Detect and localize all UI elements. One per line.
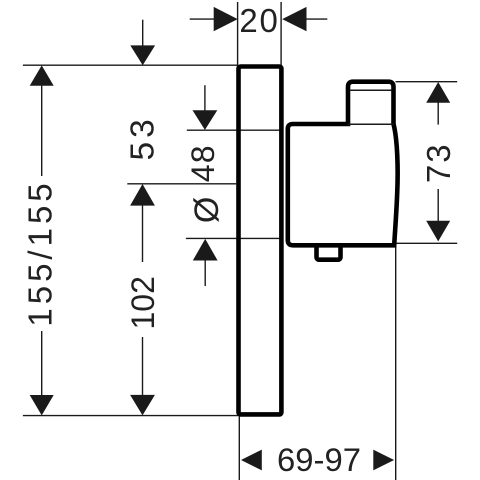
plate bottom extension line xyxy=(23,415,238,417)
dim 20 left tail xyxy=(190,18,215,20)
arrow dimØ48 bottom (up) xyxy=(193,239,218,261)
svg-text:69-97: 69-97 xyxy=(277,441,361,478)
73 top extension line xyxy=(396,81,458,83)
svg-text:48: 48 xyxy=(185,144,221,182)
dim 102 upper segment xyxy=(142,205,144,263)
line C (bottom of Ø48) xyxy=(186,237,281,239)
dim 20 right tail xyxy=(305,18,327,20)
svg-text:20: 20 xyxy=(239,2,279,39)
dim Ø48 bottom tail xyxy=(204,260,206,287)
arrow dim102 top (up) xyxy=(130,184,155,206)
69-97 left extension line xyxy=(238,417,240,480)
69-97 right extension line xyxy=(395,246,397,480)
arrow dim73 bottom (down) xyxy=(426,221,450,242)
arrow dim53 top (down) xyxy=(130,45,155,65)
arrow dim69-97 left xyxy=(241,450,262,471)
arrow dim20 left xyxy=(214,7,238,31)
svg-text:Ø: Ø xyxy=(188,197,226,223)
dim 155/155 lower tail xyxy=(41,331,43,397)
arrow dimØ48 top (down) xyxy=(193,110,218,130)
center line B (53/102 boundary) xyxy=(127,183,236,185)
dim 73 lower tail xyxy=(437,189,439,222)
73 bottom extension line xyxy=(394,242,458,244)
dim 155/155 upper tail xyxy=(41,84,43,176)
mounting tab at body bottom xyxy=(317,244,341,260)
valve body with handle xyxy=(288,82,398,246)
dim 73 upper tail xyxy=(437,102,439,125)
extension line 20-right xyxy=(280,2,282,68)
wall plate (escutcheon) side view xyxy=(239,67,282,415)
extension line 20-left xyxy=(237,2,239,68)
arrow dim69-97 right xyxy=(373,450,394,471)
arrow dim20 right xyxy=(282,7,306,31)
arrow dim73 top (up) xyxy=(426,82,450,103)
dim 102 lower segment xyxy=(142,337,144,396)
dim Ø48 top tail xyxy=(204,85,206,111)
dim 53 top tail xyxy=(142,20,144,47)
svg-text:155/155: 155/155 xyxy=(22,179,59,326)
svg-text:53: 53 xyxy=(124,115,161,160)
handle cap line xyxy=(350,89,392,91)
handle base line xyxy=(348,123,394,125)
arrow dim155 bottom (down) xyxy=(30,395,54,415)
arrow dim155 top (up) xyxy=(30,65,54,85)
plate top extension line xyxy=(23,64,238,66)
line A (top of Ø48) xyxy=(187,129,281,131)
arrow dim102 bottom (down) xyxy=(130,395,155,416)
svg-text:102: 102 xyxy=(125,276,161,329)
svg-text:73: 73 xyxy=(420,142,457,183)
